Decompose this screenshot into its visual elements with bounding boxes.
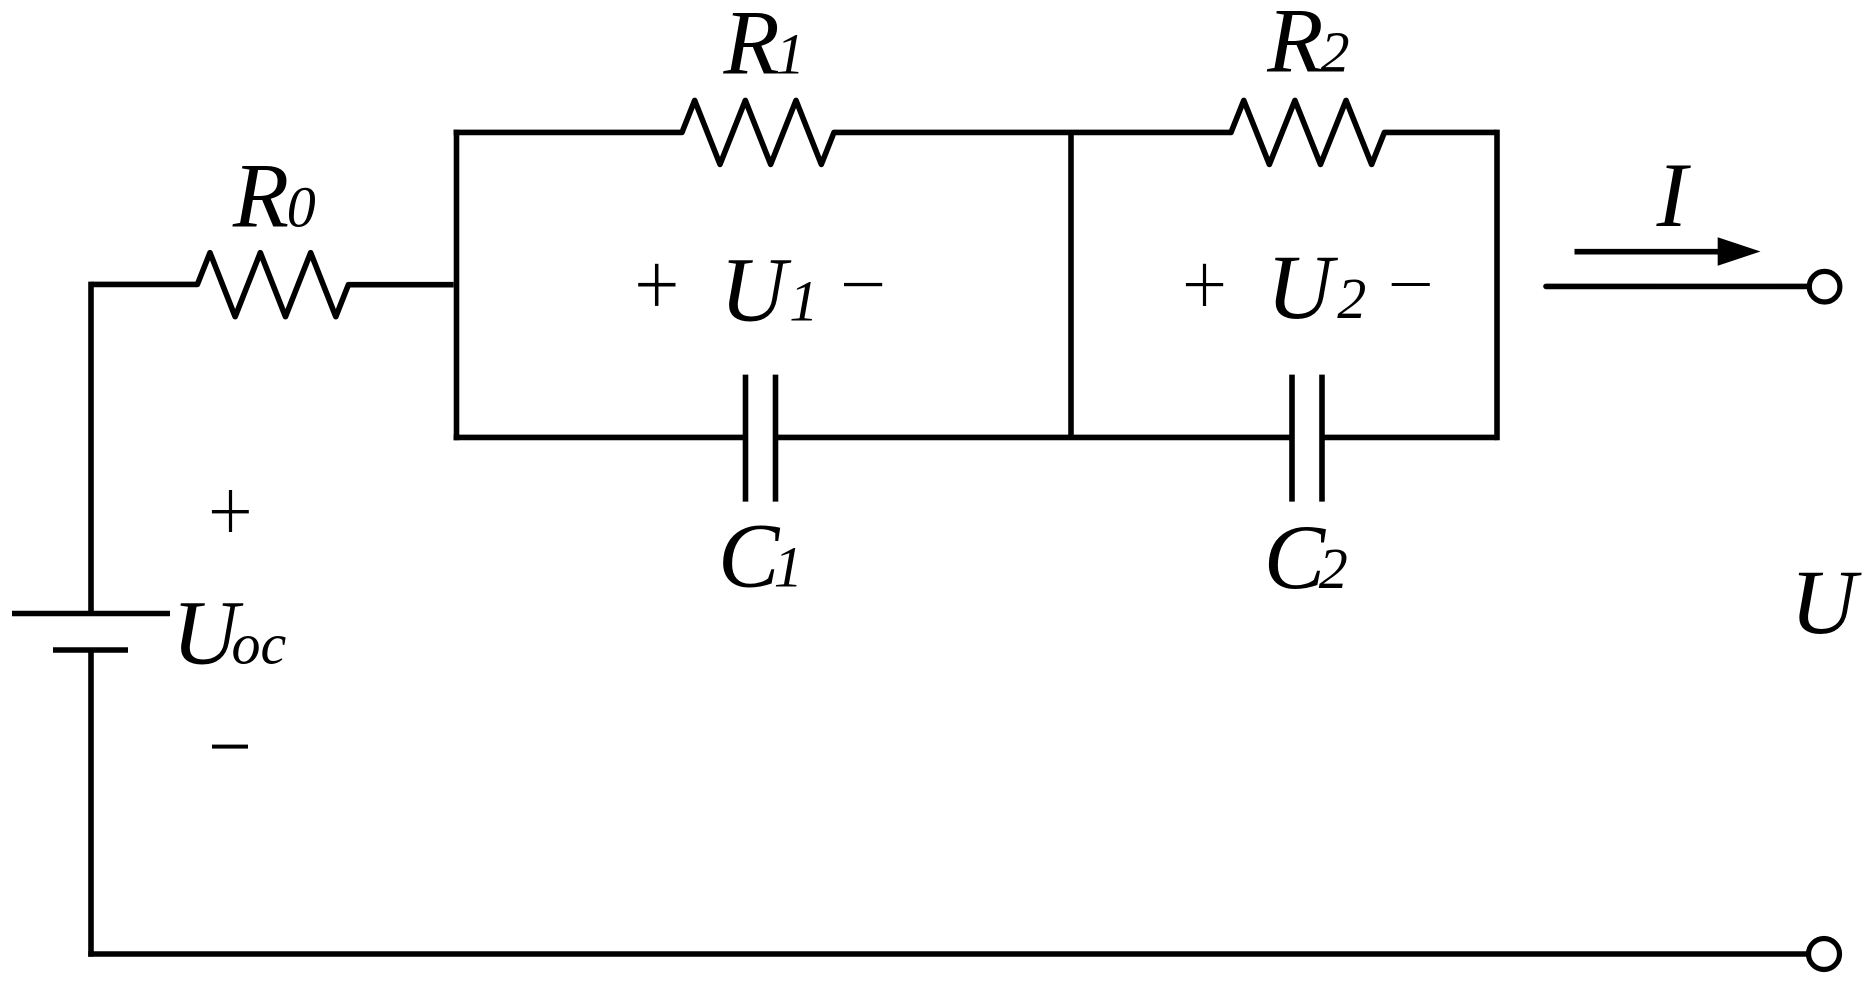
svg-text:U: U xyxy=(1790,551,1862,653)
svg-text:I: I xyxy=(1656,144,1692,246)
svg-text:C1: C1 xyxy=(718,504,803,606)
svg-text:R2: R2 xyxy=(1266,0,1349,92)
svg-text:R1: R1 xyxy=(723,0,805,93)
svg-text:U2: U2 xyxy=(1267,236,1367,338)
svg-text:R0: R0 xyxy=(232,145,316,247)
svg-text:Uoc: Uoc xyxy=(172,581,286,683)
svg-text:U1: U1 xyxy=(720,238,818,340)
svg-text:C2: C2 xyxy=(1264,506,1348,608)
